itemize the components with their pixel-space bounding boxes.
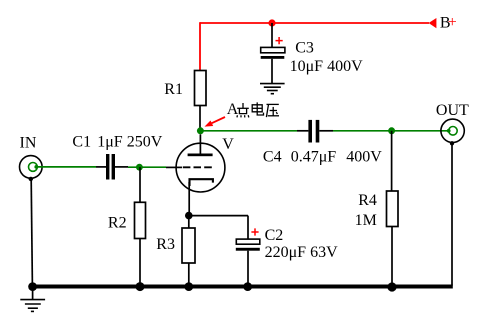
ground (C3) — [260, 84, 285, 94]
node bus dot R3 — [184, 282, 193, 291]
wire R2 top lead — [139, 167, 141, 202]
C4 label row — [263, 149, 382, 166]
svg-text:10μF 400V: 10μF 400V — [290, 58, 363, 75]
node junction dot cathode — [185, 212, 193, 220]
wire C4 left lead — [297, 130, 308, 132]
capacitor C2 — [236, 239, 260, 285]
C1 label row — [72, 134, 162, 151]
tube anode plate — [188, 154, 213, 157]
capacitor C1 — [106, 154, 115, 180]
wire C4 to OUT (green) — [333, 130, 449, 132]
node A label: 压 — [266, 104, 279, 117]
svg-text:220μF 63V: 220μF 63V — [265, 244, 338, 261]
capacitor C4 — [308, 120, 319, 143]
node junction dot R4 top (green) — [388, 127, 395, 134]
C2 polarity plus (red) — [251, 228, 258, 235]
resistor R3 — [182, 228, 195, 263]
wire IN to C1 (green) — [36, 166, 96, 168]
tube cathode — [190, 179, 213, 186]
node bus dot IN — [28, 282, 37, 291]
wire ground bus — [32, 285, 453, 289]
resistor R2 — [135, 202, 146, 238]
node junction dot R2 top (green) — [136, 164, 143, 171]
vacuum tube V envelope — [176, 143, 225, 192]
node A annotation arrow (red) — [205, 117, 226, 127]
wire C3 top lead — [271, 23, 273, 47]
node junction dot B+/C3 (red) — [268, 19, 275, 26]
wire C2 top lead — [247, 216, 249, 240]
connector IN — [20, 156, 43, 182]
node A label: 点 — [237, 103, 249, 117]
svg-text:V: V — [222, 136, 234, 153]
wire R1 bottom lead — [199, 106, 201, 132]
svg-text:1M: 1M — [355, 212, 377, 229]
svg-text:R3: R3 — [156, 236, 175, 253]
svg-text:0.47μF: 0.47μF — [291, 149, 337, 166]
node OUT pin dot (green) — [447, 129, 451, 133]
svg-text:R1: R1 — [164, 81, 183, 98]
svg-text:R4: R4 — [358, 192, 377, 209]
svg-text:1μF: 1μF — [97, 134, 123, 151]
svg-text:C4: C4 — [263, 149, 282, 166]
wire cathode to C2 — [189, 215, 248, 217]
svg-text:C1: C1 — [72, 134, 91, 151]
wire R4 bottom lead — [391, 227, 393, 287]
wire C1 right lead — [115, 166, 128, 168]
svg-text:250V: 250V — [127, 134, 163, 151]
wire C1 left lead — [96, 166, 106, 168]
wire R3 bottom lead — [188, 263, 190, 286]
node A label: 电 — [252, 102, 263, 115]
svg-text:R2: R2 — [108, 215, 127, 232]
wire R1 top lead (red) — [199, 22, 201, 70]
tube grid (dashed) — [183, 166, 212, 168]
capacitor C3 — [261, 47, 285, 83]
wire IN down to ground bus — [31, 180, 32, 286]
C3 polarity plus (red) — [276, 37, 283, 44]
resistor R4 — [387, 191, 399, 227]
wire R4 top lead — [391, 131, 393, 191]
ground (main) — [20, 300, 45, 312]
svg-text:OUT: OUT — [436, 102, 469, 119]
node bus dot R2 — [136, 282, 145, 291]
svg-text:IN: IN — [20, 135, 37, 152]
node A dot (green) — [197, 127, 204, 134]
wire node A to C4 (green) — [200, 130, 297, 132]
wire ground stem — [32, 287, 34, 300]
svg-text:C2: C2 — [265, 227, 284, 244]
node bus dot R4 — [387, 282, 396, 291]
wire R2 bottom lead — [139, 239, 141, 287]
svg-text:C3: C3 — [295, 39, 314, 56]
wire C1 to grid node (green) — [128, 166, 166, 168]
wire B+ rail (red) — [200, 22, 429, 24]
svg-text:+: + — [448, 14, 457, 31]
wire cathode lead down — [188, 182, 190, 216]
tube anode lead — [199, 134, 201, 153]
B+ arrowhead — [429, 18, 437, 28]
wire OUT down to ground bus — [451, 145, 453, 286]
wire C4 right lead — [319, 130, 333, 132]
wire grid lead — [166, 166, 182, 168]
wire R3 top lead — [188, 216, 190, 228]
connector OUT — [441, 119, 464, 145]
resistor R1 — [195, 71, 207, 106]
node bus dot C2 — [243, 282, 252, 291]
svg-text:400V: 400V — [346, 149, 382, 166]
